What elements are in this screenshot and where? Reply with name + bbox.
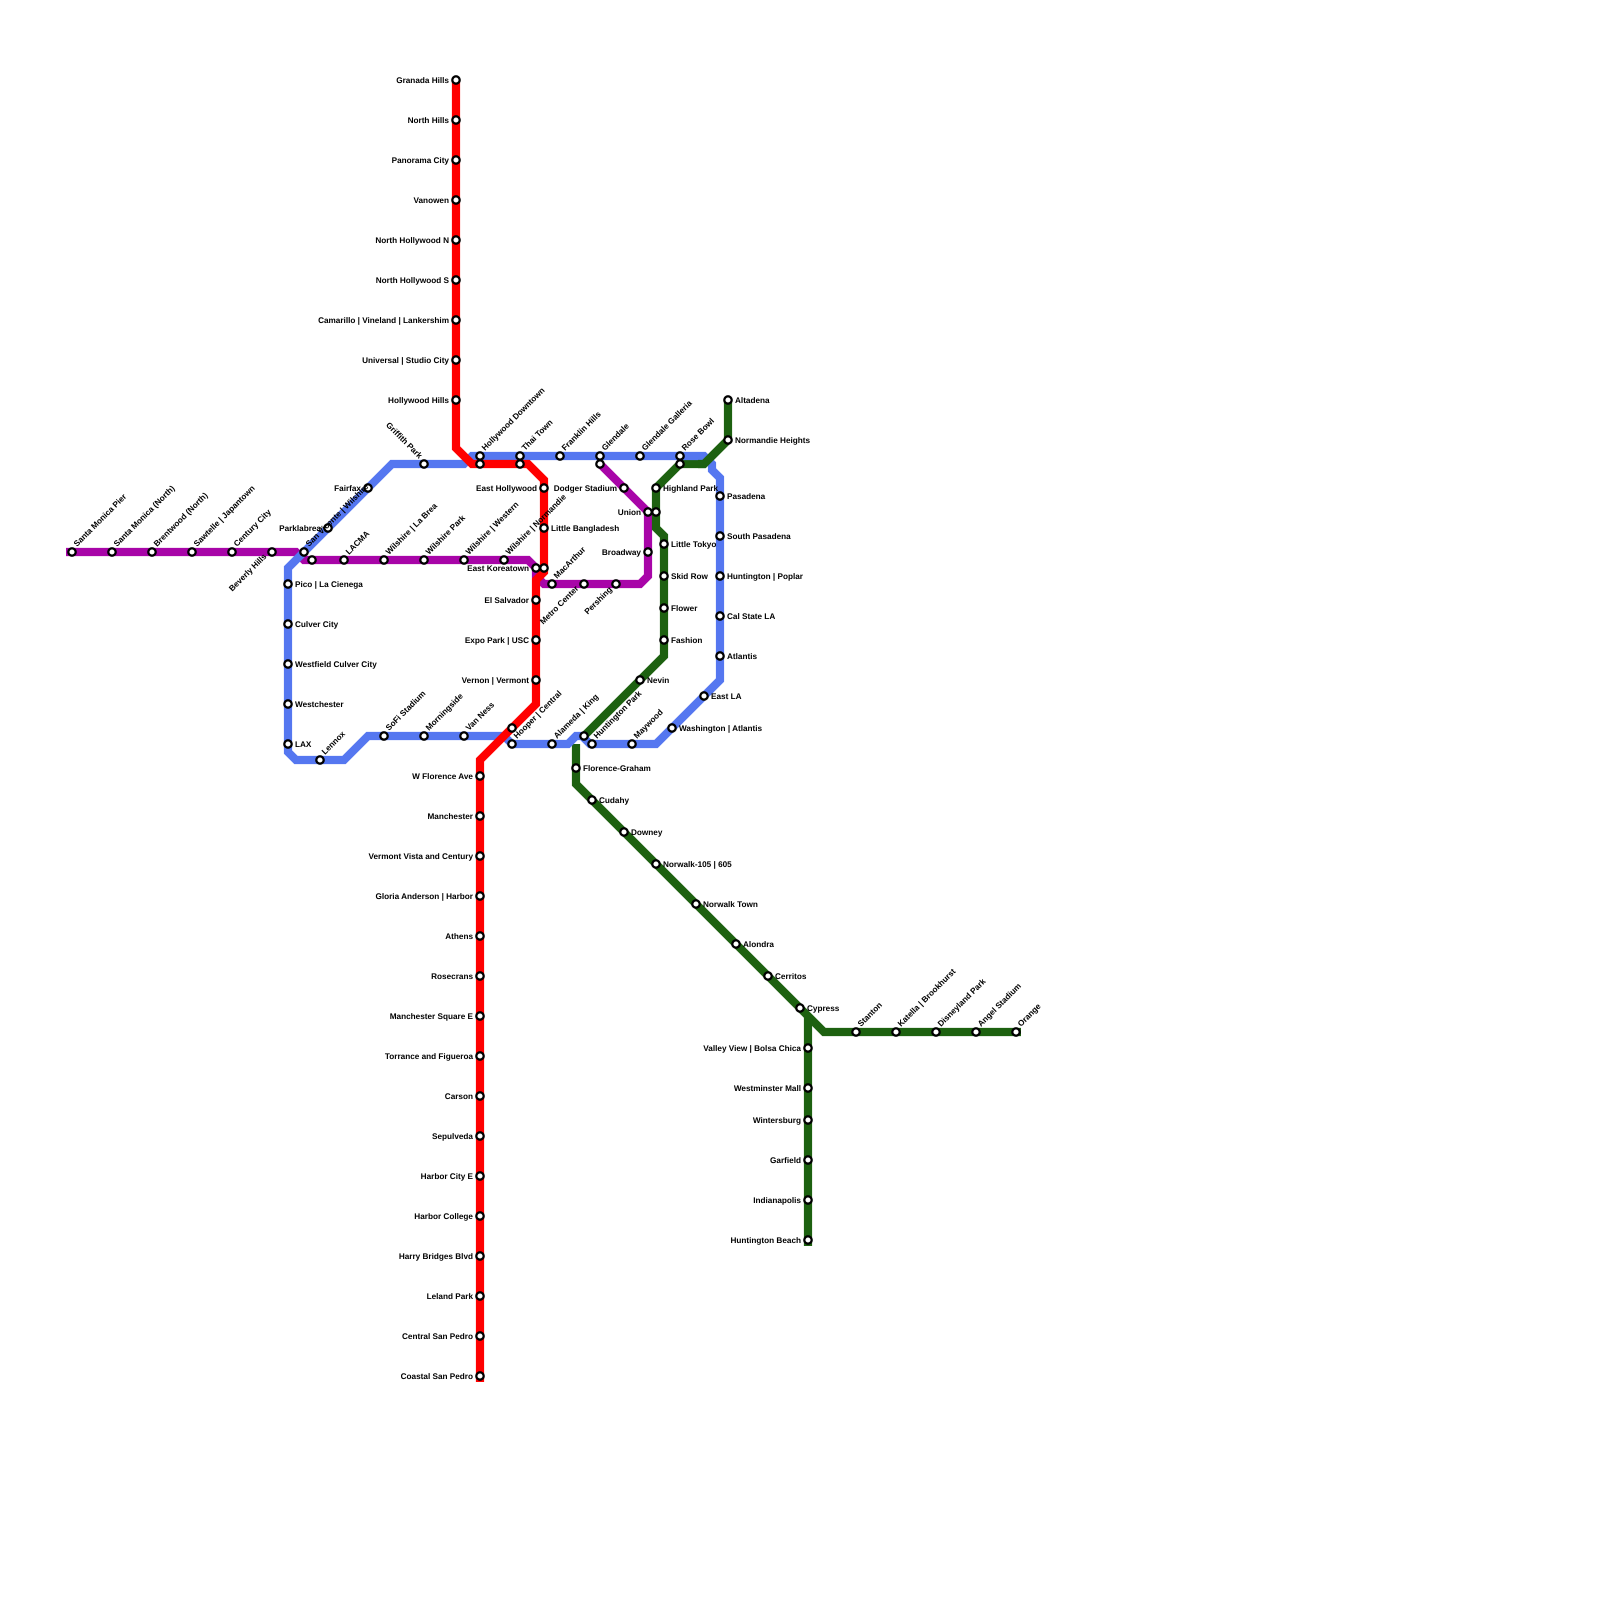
svg-text:Vernon | Vermont: Vernon | Vermont (462, 676, 530, 685)
svg-text:Expo Park | USC: Expo Park | USC (465, 636, 529, 645)
svg-text:Little Bangladesh: Little Bangladesh (551, 524, 619, 533)
svg-text:Norwalk-105 | 605: Norwalk-105 | 605 (663, 860, 732, 869)
svg-text:Highland Park: Highland Park (663, 484, 718, 493)
svg-text:North Hills: North Hills (408, 116, 450, 125)
svg-text:Union: Union (618, 508, 641, 517)
svg-text:LAX: LAX (295, 740, 312, 749)
svg-text:North Hollywood N: North Hollywood N (375, 236, 449, 245)
svg-text:Panorama City: Panorama City (392, 156, 450, 165)
svg-text:East Koreatown: East Koreatown (467, 564, 529, 573)
svg-text:Manchester Square E: Manchester Square E (390, 1012, 474, 1021)
svg-text:Valley View | Bolsa Chica: Valley View | Bolsa Chica (703, 1044, 801, 1053)
svg-text:Vermont Vista and Century: Vermont Vista and Century (369, 852, 474, 861)
svg-text:Downey: Downey (631, 828, 663, 837)
svg-text:East Hollywood: East Hollywood (476, 484, 537, 493)
svg-text:Skid Row: Skid Row (671, 572, 708, 581)
svg-text:Culver City: Culver City (295, 620, 339, 629)
svg-text:North Hollywood S: North Hollywood S (376, 276, 450, 285)
svg-text:Torrance and Figueroa: Torrance and Figueroa (385, 1052, 474, 1061)
svg-text:Harbor College: Harbor College (414, 1212, 473, 1221)
svg-text:Cudahy: Cudahy (599, 796, 629, 805)
svg-text:Alondra: Alondra (743, 940, 774, 949)
svg-text:Hollywood Hills: Hollywood Hills (388, 396, 449, 405)
svg-text:Carson: Carson (445, 1092, 473, 1101)
svg-text:Little Tokyo: Little Tokyo (671, 540, 716, 549)
svg-text:Universal | Studio City: Universal | Studio City (362, 356, 449, 365)
svg-text:Granada Hills: Granada Hills (396, 76, 449, 85)
svg-text:Cypress: Cypress (807, 1004, 840, 1013)
svg-text:Nevin: Nevin (647, 676, 669, 685)
svg-text:Dodger Stadium: Dodger Stadium (554, 484, 617, 493)
svg-text:Leland Park: Leland Park (427, 1292, 474, 1301)
svg-text:Garfield: Garfield (770, 1156, 801, 1165)
svg-text:Broadway: Broadway (602, 548, 642, 557)
svg-text:Florence-Graham: Florence-Graham (583, 764, 651, 773)
svg-text:Harbor City E: Harbor City E (421, 1172, 474, 1181)
svg-text:Rosecrans: Rosecrans (431, 972, 473, 981)
svg-text:Cal State LA: Cal State LA (727, 612, 775, 621)
svg-text:East LA: East LA (711, 692, 742, 701)
svg-text:Indianapolis: Indianapolis (753, 1196, 801, 1205)
svg-text:Camarillo | Vineland | Lankers: Camarillo | Vineland | Lankershim (318, 316, 449, 325)
svg-text:Manchester: Manchester (427, 812, 473, 821)
svg-text:Atlantis: Atlantis (727, 652, 757, 661)
svg-text:Washington | Atlantis: Washington | Atlantis (679, 724, 763, 733)
svg-text:Wintersburg: Wintersburg (753, 1116, 801, 1125)
svg-text:El Salvador: El Salvador (484, 596, 529, 605)
svg-text:Coastal San Pedro: Coastal San Pedro (401, 1372, 473, 1381)
svg-text:Huntington | Poplar: Huntington | Poplar (727, 572, 804, 581)
svg-text:Norwalk Town: Norwalk Town (703, 900, 758, 909)
svg-text:Westminster Mall: Westminster Mall (734, 1084, 801, 1093)
svg-text:South Pasadena: South Pasadena (727, 532, 791, 541)
svg-text:Westfield Culver City: Westfield Culver City (295, 660, 377, 669)
svg-text:Harry Bridges Blvd: Harry Bridges Blvd (399, 1252, 473, 1261)
svg-text:Sepulveda: Sepulveda (432, 1132, 473, 1141)
svg-text:Huntington Beach: Huntington Beach (731, 1236, 802, 1245)
svg-text:Fashion: Fashion (671, 636, 702, 645)
svg-text:Cerritos: Cerritos (775, 972, 807, 981)
svg-text:Central San Pedro: Central San Pedro (402, 1332, 473, 1341)
svg-text:Gloria Anderson | Harbor: Gloria Anderson | Harbor (375, 892, 473, 901)
svg-text:Athens: Athens (445, 932, 473, 941)
svg-text:W Florence Ave: W Florence Ave (412, 772, 473, 781)
svg-text:Westchester: Westchester (295, 700, 344, 709)
svg-text:Altadena: Altadena (735, 396, 770, 405)
svg-text:Vanowen: Vanowen (414, 196, 450, 205)
svg-text:Flower: Flower (671, 604, 698, 613)
svg-text:Normandie Heights: Normandie Heights (735, 436, 811, 445)
svg-text:Pico | La Cienega: Pico | La Cienega (295, 580, 363, 589)
svg-text:Pasadena: Pasadena (727, 492, 766, 501)
